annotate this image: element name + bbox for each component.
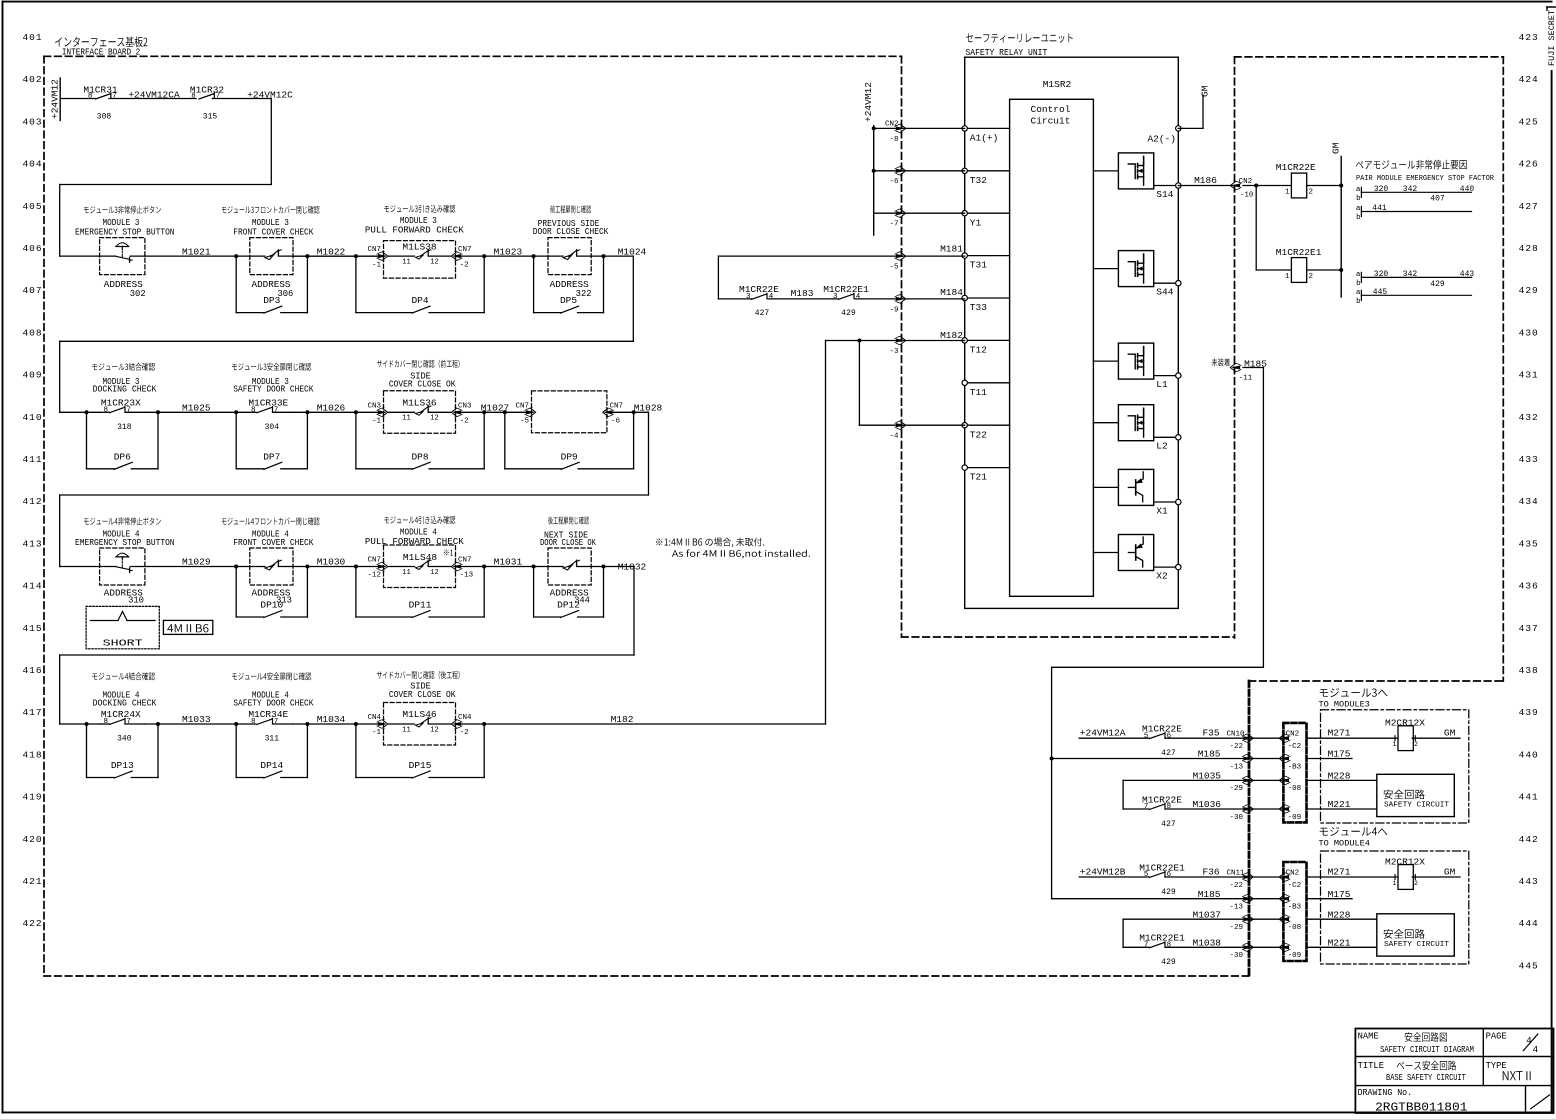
svg-text:DOOR CLOSE OK: DOOR CLOSE OK: [540, 538, 597, 548]
svg-text:CN2: CN2: [885, 120, 899, 128]
svg-text:BASE SAFETY CIRCUIT: BASE SAFETY CIRCUIT: [1386, 1073, 1466, 1083]
svg-text:a: a: [1356, 186, 1361, 194]
svg-text:-13: -13: [460, 572, 474, 580]
GM bus pair module: [1340, 156, 1342, 297]
svg-text:340: 340: [117, 735, 132, 744]
svg-text:302: 302: [130, 289, 146, 299]
svg-text:2: 2: [1414, 741, 1418, 748]
svg-text:M1CR32: M1CR32: [190, 84, 225, 95]
previous side door close check contact: [548, 238, 591, 275]
branch DP15: [355, 724, 357, 778]
header module4 pull forward check: [384, 516, 455, 524]
svg-text:A1(+): A1(+): [970, 133, 999, 144]
branch DP10: [235, 567, 237, 618]
branch DP5: [533, 256, 535, 313]
svg-text:443: 443: [1460, 270, 1475, 279]
safety circuit box module4: [1377, 914, 1455, 956]
svg-text:-09: -09: [1288, 952, 1302, 960]
svg-text:-1: -1: [372, 729, 382, 737]
header module4 emergency stop button: [84, 517, 161, 525]
svg-text:T31: T31: [970, 260, 987, 271]
svg-text:4: 4: [1532, 1044, 1538, 1055]
svg-text:T12: T12: [970, 345, 987, 356]
svg-text:304: 304: [265, 423, 280, 432]
svg-text:-C2: -C2: [1288, 743, 1302, 751]
svg-text:DRAWING No.: DRAWING No.: [1358, 1088, 1413, 1098]
limit switch M1LS36 box: [384, 391, 456, 434]
svg-text:S44: S44: [1156, 287, 1173, 298]
svg-text:-6: -6: [611, 418, 621, 426]
svg-text:12: 12: [430, 569, 438, 577]
svg-text:428: 428: [1519, 243, 1539, 254]
transistor driver L2: [1093, 422, 1118, 424]
wire M185 unconnected note: [1212, 358, 1230, 366]
svg-text:Y1: Y1: [970, 217, 982, 228]
wire M1025: [145, 411, 256, 413]
wire M1024 and wrap to row2: [591, 255, 633, 257]
svg-text:F35: F35: [1202, 728, 1219, 739]
svg-text:11: 11: [402, 726, 410, 734]
svg-text:411: 411: [22, 454, 42, 465]
jumper SHORT box: [86, 606, 159, 648]
svg-text:429: 429: [1161, 888, 1176, 897]
wire M1035/M228: [1123, 779, 1283, 781]
svg-text:7: 7: [126, 718, 131, 726]
svg-text:401: 401: [22, 32, 42, 43]
svg-text:DP14: DP14: [260, 760, 283, 771]
emergency stop button module4: [100, 548, 145, 585]
wire M181 to T31: [718, 255, 964, 257]
svg-text:COVER CLOSE OK: COVER CLOSE OK: [389, 690, 456, 700]
svg-text:-12: -12: [367, 572, 381, 580]
svg-text:M184: M184: [940, 287, 963, 298]
bracket M1037-M1038: [1122, 919, 1124, 947]
svg-text:+24VM12: +24VM12: [50, 79, 61, 119]
svg-text:425: 425: [1519, 116, 1539, 127]
svg-text:SAFETY RELAY UNIT: SAFETY RELAY UNIT: [966, 48, 1048, 58]
node T31-T33 loop rail: [717, 256, 719, 299]
svg-text:M181: M181: [940, 243, 963, 254]
svg-text:M182: M182: [611, 714, 634, 725]
transistor driver L1: [1093, 360, 1118, 362]
svg-text:-10: -10: [1240, 192, 1254, 200]
svg-text:M1CR22E: M1CR22E: [1142, 794, 1182, 805]
svg-text:417: 417: [22, 707, 42, 718]
svg-text:420: 420: [22, 834, 42, 845]
coil M1CR22E1: [1255, 186, 1257, 271]
svg-text:M1CR22E: M1CR22E: [739, 284, 779, 295]
svg-text:DP15: DP15: [409, 760, 432, 771]
wire +24VM12A / F35: [1079, 737, 1149, 739]
svg-text:422: 422: [22, 918, 42, 929]
transistor driver X2: [1093, 552, 1118, 554]
svg-text:418: 418: [22, 749, 42, 760]
svg-text:429: 429: [841, 309, 856, 318]
svg-text:M1026: M1026: [317, 403, 346, 414]
wire M1027: [456, 411, 532, 413]
svg-text:342: 342: [1403, 270, 1418, 279]
svg-text:427: 427: [1161, 749, 1176, 758]
svg-text:GM: GM: [1331, 142, 1342, 154]
svg-text:M1CR22E1: M1CR22E1: [1276, 247, 1322, 258]
svg-text:441: 441: [1372, 204, 1387, 213]
wire M1037/M228: [1123, 918, 1283, 920]
svg-text:a: a: [1356, 289, 1361, 297]
wire M185/M175: [1052, 758, 1284, 760]
svg-text:444: 444: [1519, 918, 1539, 929]
branch DP9: [504, 412, 506, 469]
title block revision slash: [1531, 1095, 1550, 1109]
svg-text:-8: -8: [889, 136, 898, 144]
svg-text:-2: -2: [460, 418, 469, 426]
svg-text:M1CR22E: M1CR22E: [1276, 162, 1316, 173]
wire M1034: [293, 723, 384, 725]
label to module4: [1320, 827, 1388, 836]
svg-text:+24VM12C: +24VM12C: [247, 89, 293, 100]
svg-text:b: b: [1356, 195, 1361, 203]
contact M1CR32: [199, 94, 214, 99]
svg-text:+24VM12B: +24VM12B: [1080, 866, 1126, 877]
svg-text:M1029: M1029: [182, 557, 211, 568]
svg-text:-08: -08: [1288, 924, 1302, 932]
contact M1CR31: [96, 94, 111, 99]
svg-text:11: 11: [402, 415, 410, 423]
svg-text:CN4: CN4: [367, 714, 381, 722]
svg-text:320: 320: [1374, 185, 1389, 194]
bold connector box CN2 module4: [1283, 862, 1306, 961]
svg-text:-09: -09: [1288, 814, 1302, 822]
svg-text:PAGE: PAGE: [1486, 1032, 1507, 1042]
svg-text:EMERGENCY STOP BUTTON: EMERGENCY STOP BUTTON: [75, 538, 175, 548]
wire M1033: [145, 723, 256, 725]
svg-text:429: 429: [1519, 285, 1539, 296]
svg-text:308: 308: [97, 113, 112, 122]
svg-text:Circuit: Circuit: [1031, 115, 1071, 126]
bracket M1035-M1036: [1122, 780, 1124, 809]
label interface board 2: [55, 37, 147, 48]
limit switch M1LS38 box: [384, 241, 456, 279]
svg-text:426: 426: [1519, 159, 1539, 170]
branch DP4: [355, 256, 357, 313]
svg-text:M1SR2: M1SR2: [1043, 79, 1072, 90]
svg-text:-9: -9: [889, 306, 898, 314]
header module3 safety door check: [232, 363, 311, 371]
svg-text:427: 427: [755, 309, 770, 318]
factor lines group1: [1361, 191, 1471, 193]
svg-text:M1030: M1030: [317, 557, 346, 568]
svg-text:432: 432: [1519, 412, 1539, 423]
svg-text:M1037: M1037: [1193, 909, 1222, 920]
contact M1CR22E (7-8): [1123, 808, 1149, 810]
svg-text:M1032: M1032: [618, 562, 647, 573]
svg-text:419: 419: [22, 792, 42, 803]
svg-text:DP4: DP4: [411, 295, 428, 306]
wire +24VM12B / F36: [1079, 876, 1149, 878]
svg-text:CN7: CN7: [515, 402, 529, 410]
svg-text:-30: -30: [1229, 952, 1243, 960]
svg-text:DP5: DP5: [560, 295, 577, 306]
svg-text:DP7: DP7: [263, 451, 280, 462]
svg-text:DOOR CLOSE CHECK: DOOR CLOSE CHECK: [533, 227, 609, 237]
wire M1032 and wrap to row4: [591, 566, 634, 568]
svg-text:b: b: [1356, 298, 1361, 306]
svg-text:M1034: M1034: [317, 714, 346, 725]
wire +24VM12 row: [60, 98, 95, 100]
svg-text:421: 421: [22, 876, 42, 887]
wire M1026: [293, 411, 384, 413]
svg-text:SAFETY DOOR CHECK: SAFETY DOOR CHECK: [233, 385, 314, 395]
wire CN2-6 to T32: [874, 170, 965, 172]
svg-text:11: 11: [402, 259, 410, 267]
svg-text:-22: -22: [1229, 743, 1243, 751]
svg-text:T21: T21: [970, 472, 987, 483]
svg-text:T11: T11: [970, 387, 987, 398]
label to module3: [1320, 688, 1388, 697]
svg-text:406: 406: [22, 243, 42, 254]
svg-text:+24VM12CA: +24VM12CA: [128, 89, 180, 100]
svg-text:a: a: [1356, 271, 1361, 279]
wire supply drop to ladder: [270, 99, 272, 185]
svg-text:L2: L2: [1156, 441, 1168, 452]
svg-text:-2: -2: [460, 729, 469, 737]
factor lines group2: [1361, 276, 1471, 278]
svg-text:8: 8: [103, 718, 108, 726]
wire M1030: [293, 566, 384, 568]
svg-text:M1038: M1038: [1193, 938, 1222, 949]
relay input terminals A1 T32 Y1 T31 T33 T12 T11 T22 T21: [965, 127, 1010, 129]
svg-text:431: 431: [1519, 370, 1539, 381]
svg-text:412: 412: [22, 496, 42, 507]
wire M1029: [145, 566, 250, 568]
svg-text:FRONT COVER CHECK: FRONT COVER CHECK: [233, 538, 314, 548]
svg-text:408: 408: [22, 327, 42, 338]
svg-text:1: 1: [1285, 189, 1290, 197]
svg-text:M1036: M1036: [1193, 799, 1222, 810]
transistor driver S14: [1093, 170, 1118, 172]
svg-text:402: 402: [22, 74, 42, 85]
svg-text:1: 1: [1392, 741, 1396, 748]
svg-text:CN7: CN7: [367, 246, 381, 254]
front cover check contact module4: [250, 548, 293, 585]
svg-text:8: 8: [251, 406, 256, 414]
label 4MIIB6 box: [163, 620, 212, 634]
svg-text:-C2: -C2: [1288, 882, 1302, 890]
svg-text:SAFETY CIRCUIT DIAGRAM: SAFETY CIRCUIT DIAGRAM: [1380, 1045, 1474, 1055]
svg-text:SAFETY DOOR CHECK: SAFETY DOOR CHECK: [233, 699, 314, 709]
safety circuit box module3: [1377, 774, 1455, 816]
svg-text:404: 404: [22, 159, 42, 170]
svg-text:2: 2: [1309, 189, 1314, 197]
branch DP6: [86, 412, 88, 469]
svg-text:SAFETY CIRCUIT: SAFETY CIRCUIT: [1384, 941, 1450, 949]
supply bus +24VM12 at relay: [873, 126, 875, 235]
svg-text:M1CR22E: M1CR22E: [1142, 724, 1182, 735]
svg-text:322: 322: [576, 289, 592, 299]
svg-text:CN3: CN3: [458, 402, 472, 410]
branch DP7: [235, 412, 237, 469]
svg-text:407: 407: [1430, 195, 1445, 204]
svg-text:405: 405: [22, 201, 42, 212]
svg-text:A2(-): A2(-): [1147, 134, 1176, 145]
svg-text:8: 8: [251, 718, 256, 726]
svg-text:310: 310: [128, 596, 144, 606]
wire M186 from S14: [1178, 185, 1234, 187]
svg-text:GM: GM: [1200, 85, 1211, 97]
svg-text:-30: -30: [1229, 814, 1243, 822]
svg-text:-5: -5: [889, 264, 899, 272]
svg-text:315: 315: [203, 113, 218, 122]
svg-text:GM: GM: [1444, 866, 1456, 877]
branch DP12: [533, 567, 535, 618]
svg-text:-B3: -B3: [1288, 904, 1302, 912]
svg-text:1: 1: [1392, 880, 1396, 887]
wire M1031: [456, 566, 549, 568]
svg-text:M185: M185: [1198, 889, 1221, 900]
svg-text:429: 429: [1430, 280, 1445, 289]
dashed boundary interface board 2: [44, 55, 902, 57]
svg-text:X1: X1: [1156, 505, 1168, 516]
svg-text:423: 423: [1519, 32, 1539, 43]
svg-text:CN7: CN7: [610, 402, 624, 410]
wire M1023: [456, 255, 549, 257]
wire M182 to relay: [456, 723, 826, 725]
label pair module emergency stop factor: [1356, 160, 1467, 170]
svg-text:CN7: CN7: [458, 246, 472, 254]
wire M271 to coil M2CR12X: [1307, 876, 1399, 878]
svg-text:8: 8: [103, 406, 108, 414]
contact M1CR22E (3-4): [752, 294, 767, 299]
svg-text:403: 403: [22, 116, 42, 127]
note as for 4MIIB6 not installed: [656, 538, 764, 548]
svg-text:DP3: DP3: [263, 295, 280, 306]
svg-text:443: 443: [1519, 876, 1539, 887]
svg-text:439: 439: [1519, 707, 1539, 718]
header previous side door close check: [550, 205, 591, 213]
svg-text:TITLE: TITLE: [1358, 1061, 1384, 1071]
svg-text:M1CR22E1: M1CR22E1: [1139, 933, 1185, 944]
svg-text:436: 436: [1519, 581, 1539, 592]
svg-text:CN7: CN7: [367, 557, 381, 565]
svg-text:DP11: DP11: [409, 600, 432, 611]
svg-text:M1LS38: M1LS38: [402, 241, 437, 252]
node +24VM12 supply stub: [59, 78, 61, 121]
svg-text:X2: X2: [1156, 571, 1168, 582]
svg-text:DP10: DP10: [260, 600, 283, 611]
svg-text:CN11: CN11: [1226, 869, 1245, 877]
svg-text:M185: M185: [1198, 749, 1221, 760]
contact M1CR22E1 (3-4): [839, 294, 854, 299]
svg-text:12: 12: [430, 415, 438, 423]
svg-text:M1CR22E1: M1CR22E1: [823, 284, 869, 295]
svg-text:410: 410: [22, 412, 42, 423]
header module3 docking check: [92, 363, 155, 371]
branch DP14: [235, 724, 237, 778]
svg-text:416: 416: [22, 665, 42, 676]
header next side door close ok: [548, 517, 589, 525]
svg-text:-29: -29: [1229, 924, 1243, 932]
door close check connector box (empty): [532, 391, 607, 433]
svg-text:L1: L1: [1156, 379, 1168, 390]
header module3 front cover check: [222, 206, 320, 214]
svg-text:COVER CLOSE OK: COVER CLOSE OK: [389, 380, 456, 390]
svg-text:7: 7: [274, 718, 279, 726]
svg-text:7: 7: [274, 406, 279, 414]
page border frame: [3, 1, 1552, 3]
svg-text:M182: M182: [940, 330, 963, 341]
svg-text:FRONT COVER CHECK: FRONT COVER CHECK: [233, 227, 314, 237]
svg-text:424: 424: [1519, 74, 1539, 85]
bold connector box CN2 module3: [1283, 723, 1306, 823]
svg-text:b: b: [1356, 214, 1361, 222]
svg-text:CN10: CN10: [1226, 731, 1245, 739]
transistor driver X1: [1093, 486, 1118, 488]
svg-text:11: 11: [402, 569, 410, 577]
wire CN2-8 to A1: [874, 127, 965, 129]
svg-text:M1LS48: M1LS48: [403, 552, 438, 563]
label safety relay unit: [966, 34, 1073, 43]
svg-text:-08: -08: [1288, 785, 1302, 793]
svg-text:+24VM12: +24VM12: [863, 82, 874, 122]
contact M1CR22E1 (5-6): [1150, 872, 1165, 877]
transistor driver S44: [1093, 268, 1118, 270]
svg-text:1: 1: [1285, 273, 1290, 281]
svg-text:311: 311: [265, 735, 280, 744]
svg-text:DP13: DP13: [111, 760, 134, 771]
svg-text:-B3: -B3: [1288, 763, 1302, 771]
wire T22 branch: [858, 341, 860, 426]
svg-text:NAME: NAME: [1358, 1032, 1379, 1042]
svg-text:445: 445: [1519, 960, 1539, 971]
svg-text:PAIR MODULE EMERGENCY STOP FAC: PAIR MODULE EMERGENCY STOP FACTOR: [1356, 175, 1494, 183]
header module3 emergency stop button: [84, 206, 161, 214]
wire M271 to coil M2CR12X: [1307, 737, 1399, 739]
svg-text:M183: M183: [791, 288, 814, 299]
svg-text:414: 414: [22, 581, 42, 592]
dash-dot box module4: [1321, 851, 1469, 964]
branch DP8: [355, 412, 357, 469]
svg-text:2: 2: [1309, 273, 1314, 281]
feed rail to module connectors: [1051, 667, 1053, 898]
wire row4 left: [60, 723, 100, 725]
wire M1028 and wrap to row3: [607, 411, 649, 413]
svg-text:320: 320: [1374, 270, 1389, 279]
svg-text:CN3: CN3: [367, 402, 381, 410]
limit switch M1LS46 box: [384, 703, 456, 746]
svg-text:DP12: DP12: [557, 600, 580, 611]
svg-text:M186: M186: [1194, 175, 1217, 186]
svg-text:PULL FORWARD CHECK: PULL FORWARD CHECK: [365, 226, 465, 236]
svg-text:-22: -22: [1229, 882, 1243, 890]
svg-text:T22: T22: [970, 429, 987, 440]
svg-text:CN7: CN7: [458, 557, 472, 565]
emergency stop button module3: [100, 238, 145, 275]
svg-text:DP6: DP6: [114, 451, 131, 462]
svg-text:427: 427: [1161, 820, 1176, 829]
svg-text:-1: -1: [372, 418, 382, 426]
dashed boundary pair module factor box: [1235, 56, 1504, 58]
wire row2 left: [60, 411, 100, 413]
svg-text:438: 438: [1519, 665, 1539, 676]
svg-text:429: 429: [1161, 958, 1176, 967]
svg-text:b: b: [1356, 280, 1361, 288]
svg-text:M1035: M1035: [1193, 771, 1222, 782]
svg-text:M1025: M1025: [182, 403, 211, 414]
svg-text:DOCKING CHECK: DOCKING CHECK: [93, 385, 157, 395]
svg-text:M1LS36: M1LS36: [402, 398, 437, 409]
branch DP3: [235, 256, 237, 313]
wire M183/M184 to T33: [718, 298, 751, 300]
svg-text:434: 434: [1519, 496, 1539, 507]
